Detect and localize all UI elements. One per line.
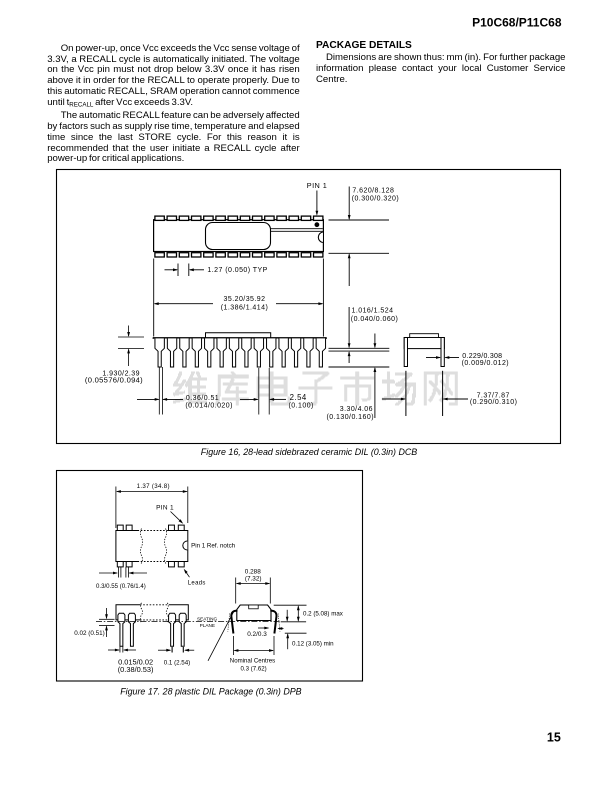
- right column heading PACKAGE DETAILS: [316, 40, 412, 51]
- watermark character 2: [215, 372, 249, 406]
- dim 0.229 arrows: [426, 356, 459, 359]
- svg-text:(0.130/0.160): (0.130/0.160): [327, 414, 375, 421]
- dim 7.620/8.128 extension lines: [329, 220, 390, 253]
- SEATING PLANE label: [197, 617, 218, 629]
- break lines (fig17 top view): [140, 529, 166, 565]
- package body top view (fig17): [116, 531, 188, 562]
- dim 0.2 max label: [303, 611, 344, 618]
- side view pins (fig17): [118, 613, 186, 646]
- pin tip reference line (fig16): [329, 366, 390, 368]
- end view body (fig16): [404, 334, 444, 367]
- svg-text:(0.014/0.020): (0.014/0.020): [185, 403, 233, 410]
- dim 0.015 arrows: [108, 649, 136, 652]
- page number 15: [547, 730, 561, 744]
- svg-text:35.20/35.92: 35.20/35.92: [224, 296, 266, 303]
- dim 2.54 arrows: [240, 398, 286, 401]
- Leads arrow: [184, 569, 190, 578]
- svg-text:15: 15: [547, 730, 561, 744]
- PIN 1 label (fig16): [307, 181, 328, 190]
- dim 35.20 arrows: [154, 302, 324, 305]
- dim 3.30 arrows: [374, 334, 377, 419]
- end view top notch (fig17): [249, 605, 259, 609]
- dim 35.20 label: [221, 296, 269, 312]
- pin leg reference lines (fig17): [120, 646, 183, 652]
- package body side view (fig16): [153, 337, 326, 339]
- dim 0.02 label: [74, 630, 104, 637]
- watermark character 1: [173, 372, 207, 406]
- end view right lead (fig17): [270, 611, 276, 634]
- svg-text:0.2 (5.08) max: 0.2 (5.08) max: [303, 611, 344, 618]
- side view break lines (fig17): [140, 603, 168, 623]
- watermark character 4: [298, 372, 332, 406]
- watermark text (light gray): [173, 372, 458, 406]
- dim 0.2 max arrows: [297, 605, 300, 622]
- dim 0.229 label: [462, 353, 510, 367]
- figure 16 border box: [57, 170, 561, 444]
- svg-text:Figure 17. 28 plastic DIL Pack: Figure 17. 28 plastic DIL Package (0.3in…: [120, 687, 301, 697]
- dim 0.288 label: [245, 569, 262, 583]
- svg-text:PIN 1: PIN 1: [307, 181, 328, 190]
- nominal centres extension lines: [233, 636, 274, 655]
- pin1 leg reference lines (fig16): [159, 367, 162, 415]
- top lead row (fig16 top view): [155, 216, 323, 220]
- dim 1.930 tick lines: [118, 337, 144, 348]
- PIN 1 leader arrow: [316, 191, 319, 216]
- nominal centres dimension line: [233, 649, 274, 652]
- dim 0.12 min arrows: [286, 610, 289, 649]
- watermark character 3: [257, 372, 291, 406]
- svg-text:0.3/0.55 (0.76/1.4): 0.3/0.55 (0.76/1.4): [96, 583, 146, 590]
- svg-text:0.2/0.3: 0.2/0.3: [247, 631, 267, 638]
- svg-text:(0.290/0.310): (0.290/0.310): [470, 399, 518, 406]
- svg-text:P10C68/P11C68: P10C68/P11C68: [472, 15, 562, 29]
- corner leads (fig17 top view): [117, 525, 184, 567]
- dim 0.1 arrows: [158, 649, 194, 652]
- svg-text:PLANE: PLANE: [200, 623, 215, 628]
- right column paragraph text: [316, 52, 566, 86]
- svg-text:0.1 (2.54): 0.1 (2.54): [164, 659, 190, 666]
- body/shoulder extension lines (fig16): [329, 348, 390, 351]
- dim 0.02 ticks: [99, 619, 115, 625]
- Leads label: [188, 580, 206, 586]
- figure 16 caption: [201, 447, 417, 457]
- svg-text:(0.040/0.060): (0.040/0.060): [351, 316, 399, 323]
- seating plane leader line: [208, 612, 234, 661]
- svg-text:2.54: 2.54: [290, 393, 307, 402]
- watermark character 5: [340, 372, 374, 406]
- svg-text:0.12 (3.05) min: 0.12 (3.05) min: [292, 641, 334, 648]
- svg-text:(1.386/1.414): (1.386/1.414): [221, 305, 269, 312]
- Pin 1 Ref. notch label: [191, 543, 236, 550]
- svg-text:Leads: Leads: [188, 580, 206, 586]
- dim 35.20 extension lines: [154, 259, 324, 337]
- end view left lead (fig17): [231, 611, 237, 634]
- dim 1.37 label: [137, 483, 170, 490]
- nominal centres label: [230, 658, 275, 673]
- dim 1.016 arrows: [348, 307, 351, 363]
- svg-text:0.229/0.308: 0.229/0.308: [462, 353, 502, 360]
- dim 1.930 arrows: [127, 326, 130, 367]
- side view pins (fig16): [155, 338, 326, 367]
- svg-text:1.37 (34.8): 1.37 (34.8): [137, 483, 170, 490]
- dim 1.37 dimension line: [116, 490, 188, 493]
- lid bump side view (fig16): [206, 333, 271, 338]
- bottom lead row (fig16 top view): [155, 253, 323, 257]
- dim 0.3/0.55 label: [96, 583, 146, 590]
- dim 1.27 arrows: [165, 268, 205, 271]
- dim 0.3/0.55 arrows: [99, 572, 147, 575]
- svg-text:Nominal Centres: Nominal Centres: [230, 658, 275, 665]
- package body top view (fig16): [154, 220, 324, 252]
- dim 0.02 arrows: [105, 608, 108, 637]
- svg-text:0.3 (7.62): 0.3 (7.62): [241, 665, 267, 672]
- dim 1.27 tick lines: [178, 264, 189, 277]
- end view body (fig17): [237, 605, 271, 621]
- dim 1.27 label: [207, 267, 267, 274]
- dim 3.30 label: [327, 406, 375, 421]
- dim 0.288 dimension line: [236, 582, 271, 585]
- dim 0.36 label: [185, 395, 233, 410]
- svg-text:(0.05576/0.094): (0.05576/0.094): [85, 375, 143, 384]
- alternate lead position dotted: [228, 614, 280, 632]
- svg-text:PIN 1: PIN 1: [156, 505, 174, 512]
- svg-text:0.02 (0.51): 0.02 (0.51): [74, 630, 104, 637]
- dim 0.2/0.3 label: [247, 631, 267, 638]
- package body side view (fig17): [116, 605, 188, 620]
- svg-text:(0.100): (0.100): [289, 403, 314, 410]
- dim 0.12 min label: [292, 641, 334, 648]
- cavity lid (fig16 top view): [206, 223, 271, 250]
- svg-text:1.27 (0.050) TYP: 1.27 (0.050) TYP: [207, 267, 267, 274]
- svg-text:(0.009/0.012): (0.009/0.012): [462, 360, 510, 367]
- watermark character 6: [382, 372, 416, 406]
- dim 7.37 label: [470, 393, 518, 407]
- dim 1.016 label: [351, 308, 399, 323]
- dim 0.12 min tick: [285, 632, 307, 634]
- svg-text:0.36/0.51: 0.36/0.51: [186, 395, 219, 402]
- figure 17 border box: [57, 471, 363, 682]
- end view legs (fig16): [406, 371, 443, 416]
- bottom left legs (fig17 top view): [118, 567, 128, 578]
- watermark character 7: [424, 372, 458, 406]
- dim 0.015 label: [118, 657, 154, 674]
- dim 7.620/8.128 label: [352, 188, 400, 203]
- dim 7.37 arrows: [382, 398, 468, 401]
- dim 0.288 extension lines: [236, 578, 271, 604]
- PIN 1 label (fig17): [156, 505, 174, 512]
- pin 1 dot: [315, 222, 320, 227]
- seating plane line: [96, 620, 280, 622]
- PIN 1 arrow (fig17): [171, 512, 184, 524]
- seal lines (fig16 top view): [271, 229, 323, 232]
- page header P10C68/P11C68: [472, 15, 562, 29]
- svg-text:(0.300/0.320): (0.300/0.320): [352, 196, 400, 203]
- svg-text:1.016/1.524: 1.016/1.524: [352, 308, 394, 315]
- pitch reference lines (fig16): [259, 368, 269, 415]
- svg-text:Pin 1 Ref. notch: Pin 1 Ref. notch: [191, 543, 236, 550]
- dim 1.37 extension lines: [116, 487, 188, 529]
- dim 0.2 max ticks: [274, 605, 307, 622]
- svg-text:7.620/8.128: 7.620/8.128: [352, 188, 394, 195]
- dim 0.1 label: [164, 659, 190, 666]
- dim 2.54 label: [289, 393, 314, 410]
- dim 0.36 arrows: [137, 398, 183, 401]
- svg-text:Figure 16, 28-lead sidebrazed: Figure 16, 28-lead sidebrazed ceramic DI…: [201, 447, 417, 457]
- dim 0.2/0.3 arrows: [258, 627, 284, 630]
- index notch (fig16 top view): [318, 232, 323, 243]
- svg-text:SEATING: SEATING: [197, 617, 218, 622]
- svg-text:3.30/4.06: 3.30/4.06: [340, 406, 373, 413]
- figure 17 caption: [120, 687, 301, 697]
- svg-text:(7.32): (7.32): [245, 575, 262, 582]
- dim 1.930 label: [85, 370, 143, 384]
- index notch (fig17 top view): [183, 541, 188, 550]
- svg-text:(0.38/0.53): (0.38/0.53): [118, 665, 154, 674]
- dim 7.620/8.128 arrows: [348, 187, 351, 287]
- left column paragraph text: [47, 44, 300, 166]
